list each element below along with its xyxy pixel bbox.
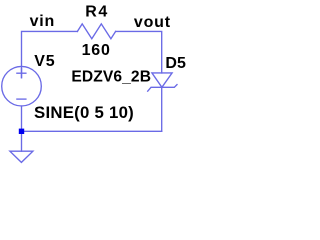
wire vout top-right segment: [116, 31, 162, 73]
svg-text:D5: D5: [165, 55, 186, 72]
voltage source V5 circle: [2, 66, 42, 106]
wire bottom rail: [22, 130, 162, 132]
svg-text:SINE(0 5 10): SINE(0 5 10): [34, 103, 134, 122]
resistor R4: [77, 24, 115, 39]
svg-text:vin: vin: [30, 13, 56, 30]
wire ground stub: [21, 131, 23, 151]
svg-text:EDZV6_2B: EDZV6_2B: [71, 69, 151, 86]
diode D5 triangle: [152, 73, 172, 87]
svg-text:vout: vout: [134, 14, 171, 31]
zener cathode bar: [148, 85, 177, 92]
wire diode bottom lead: [161, 87, 163, 131]
ground symbol: [10, 151, 33, 162]
svg-text:R4: R4: [85, 3, 109, 20]
V5 plus sign: [17, 72, 26, 74]
V5 minus sign: [17, 98, 26, 100]
wire vin top-left segment: [22, 31, 78, 77]
wire source bottom lead: [21, 106, 23, 131]
svg-text:160: 160: [82, 42, 111, 59]
svg-text:V5: V5: [34, 53, 55, 70]
junction node: [19, 129, 24, 134]
